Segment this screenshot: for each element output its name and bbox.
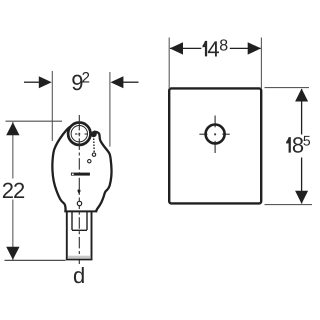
- svg-text:22: 22: [2, 178, 25, 203]
- trap body bottom edge: [64, 210, 97, 212]
- inlet inner thin circle: [71, 126, 87, 142]
- dimension 22 up arrow: [6, 122, 19, 135]
- socket wall right: [86, 211, 88, 230]
- centerline center dash: [78, 133, 80, 137]
- dimension 185 line upper segment: [301, 89, 303, 135]
- dimension 148 line right segment: [230, 47, 261, 49]
- extension line bottom of 22: [5, 259, 66, 261]
- inlet horizontal center mark right: [85, 133, 88, 135]
- plate circle horizontal mark right: [222, 133, 230, 135]
- dimension 148 left arrow: [170, 42, 183, 54]
- keyhole screw: [78, 189, 81, 194]
- dimension 185 up arrow: [295, 89, 308, 102]
- plate circle center dash horizontal: [214, 133, 216, 135]
- svg-text:d: d: [73, 263, 85, 288]
- svg-text:48: 48: [207, 36, 228, 61]
- small hole lower: [77, 201, 81, 205]
- socket wall left: [71, 211, 73, 230]
- centerline of trap (dash-dot): [78, 138, 80, 264]
- trap body outline left side: [52, 127, 70, 212]
- knob on right of inlet: [90, 130, 98, 139]
- dimension 185 label: [286, 137, 291, 153]
- dimension 148 right arrow: [248, 42, 261, 54]
- centerline vertical upper segment: [78, 115, 80, 130]
- socket bottom edge: [72, 229, 87, 231]
- inlet horizontal center mark left: [75, 133, 77, 135]
- dimension 92 right arrow: [111, 76, 124, 88]
- dimension 185 down arrow: [295, 191, 308, 204]
- svg-text:85: 85: [292, 132, 311, 157]
- dimension 92 left arrow: [39, 76, 52, 88]
- dimension 92 right tail: [123, 81, 139, 83]
- logo slot bar: [71, 173, 90, 176]
- extension line right of 92: [109, 72, 111, 147]
- dimension 22 down arrow: [6, 247, 19, 260]
- plate circle center dash vertical: [214, 133, 216, 135]
- svg-text:92: 92: [71, 70, 90, 96]
- pull chain end ring: [92, 153, 95, 156]
- extension line top of 22: [6, 120, 63, 122]
- extension line bottom of 185: [265, 204, 313, 206]
- pipe bottom gray band: [68, 256, 91, 259]
- plate circle horizontal mark left: [199, 133, 207, 135]
- extension line top of 185: [265, 87, 310, 89]
- outlet pipe outer wall right: [91, 211, 93, 260]
- extension line left of 148: [168, 38, 170, 89]
- dimension 148 line left segment: [170, 47, 201, 49]
- plate circle vertical mark upper: [214, 116, 216, 128]
- outlet pipe outer wall left: [66, 211, 68, 260]
- plate circle vertical mark lower: [214, 141, 216, 153]
- pipe bottom edge: [66, 259, 93, 261]
- dimension 185 line lower segment: [301, 158, 303, 204]
- inlet outer ring: [68, 123, 90, 145]
- dimension 148 label: [203, 41, 208, 57]
- extension line right of 148: [260, 38, 262, 89]
- cover plate rectangle: [169, 88, 261, 203]
- dimension 22 vertical line lower segment: [12, 200, 14, 261]
- plate circle ring: [206, 125, 225, 144]
- small hole upper: [88, 160, 91, 163]
- dimension 92 left tail: [24, 81, 40, 83]
- trap body outline right side: [94, 132, 112, 212]
- extension line left of 92: [51, 71, 53, 141]
- pull chain dashed line: [93, 139, 96, 153]
- inlet horizontal center mark middle: [78, 133, 80, 135]
- dimension 22 vertical line upper segment: [12, 122, 14, 179]
